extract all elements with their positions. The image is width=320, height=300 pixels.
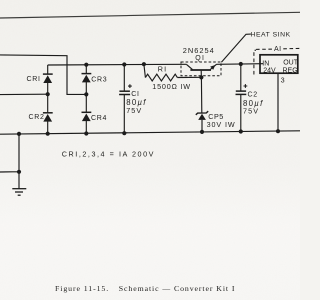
- svg-text:1500Ω IW: 1500Ω IW: [152, 82, 191, 91]
- svg-text:HEAT SINK: HEAT SINK: [251, 32, 291, 39]
- svg-text:RI: RI: [158, 65, 168, 74]
- junction node C2 bottom rail: [239, 129, 243, 133]
- wire - DC bottom rail: [0, 131, 300, 134]
- Q1 dashed outline box: [181, 62, 221, 76]
- svg-text:75V: 75V: [126, 106, 142, 115]
- diode CR3: [82, 74, 92, 83]
- Q1 emitter diagonal: [210, 64, 216, 69]
- wire AC input 2 (to CR3/CR4 junction): [0, 55, 86, 95]
- junction node CP5 bottom rail: [200, 130, 204, 134]
- junction node C2 tap: [239, 62, 243, 66]
- svg-text:CRI,2,3,4 = IA 200V: CRI,2,3,4 = IA 200V: [62, 150, 155, 159]
- svg-text:CR2: CR2: [29, 114, 45, 121]
- wire C1 branch: [123, 65, 125, 134]
- Q1 base bar: [190, 69, 211, 71]
- heat sink leader line: [221, 34, 251, 62]
- wire R1 to Q1 base: [177, 76, 201, 78]
- wire AC input 1 (to CR1/CR2 junction): [0, 93, 48, 95]
- junction node R1 top rail: [142, 62, 146, 66]
- svg-text:24V: 24V: [263, 67, 276, 74]
- Q1 emitter arrow: [210, 65, 215, 70]
- junction node ground rail left: [17, 132, 21, 136]
- C1 plus sign: [128, 84, 132, 88]
- wire emitter rail to A1 IN: [216, 63, 263, 66]
- svg-text:2N6254: 2N6254: [183, 46, 215, 55]
- wire CR3/CR4 column: [85, 65, 87, 134]
- junction node ground branch: [17, 170, 21, 174]
- wire C2 branch: [240, 64, 242, 132]
- svg-text:CR3: CR3: [91, 77, 107, 84]
- wire ground branch: [0, 134, 19, 189]
- junction node CR2 bottom rail: [46, 132, 50, 136]
- wire CR1/CR2 column: [47, 65, 49, 134]
- junction node C1 top rail: [122, 62, 126, 66]
- wire A1 OUT lead (pin 3): [277, 73, 279, 131]
- svg-text:C2: C2: [248, 92, 258, 99]
- resistor R1 zigzag: [145, 74, 177, 81]
- page border line (top, skewed): [0, 12, 300, 18]
- transistor Q1 symbol: [187, 64, 217, 70]
- svg-text:OUT: OUT: [283, 60, 299, 67]
- diode CR1: [43, 74, 53, 83]
- junction node CR1/CR2 midpoint: [46, 92, 50, 96]
- ground: [12, 189, 26, 196]
- svg-text:3: 3: [281, 76, 285, 85]
- junction node CR3 top rail: [84, 63, 88, 67]
- wire Q1 base lead: [200, 71, 202, 78]
- svg-text:CRI: CRI: [27, 76, 41, 83]
- junction node A1 out bottom rail: [276, 129, 280, 133]
- wire + DC top rail (left of Q1): [48, 63, 187, 66]
- wire CP5 branch: [200, 77, 203, 132]
- svg-text:75V: 75V: [243, 106, 259, 115]
- junction node Q1 base: [199, 75, 203, 79]
- junction node CR3/CR4 midpoint: [84, 92, 88, 96]
- svg-text:Figure 11-15. Schematic — Con: Figure 11-15. Schematic — Converter Kit …: [55, 284, 235, 293]
- regulator A1 box: [260, 55, 298, 73]
- svg-text:CR4: CR4: [91, 115, 107, 122]
- junction node C1 bottom rail: [122, 131, 126, 135]
- Q1 collector diagonal: [187, 64, 193, 69]
- capacitor C1 plates: [119, 91, 130, 94]
- svg-text:REG: REG: [283, 68, 298, 75]
- C2 plus sign: [244, 84, 248, 88]
- svg-text:CI: CI: [131, 91, 139, 98]
- zener diode CP5: [196, 111, 208, 120]
- wire R1 left lead: [144, 64, 146, 77]
- diode CR2: [43, 113, 53, 122]
- capacitor C2 plates: [236, 91, 247, 94]
- A1 dashed boundary: [254, 50, 256, 74]
- svg-text:AI: AI: [274, 46, 282, 53]
- junction node CR4 bottom rail: [84, 131, 88, 135]
- diode CR4: [82, 112, 92, 121]
- svg-text:30V IW: 30V IW: [207, 120, 236, 129]
- svg-text:QI: QI: [195, 55, 205, 62]
